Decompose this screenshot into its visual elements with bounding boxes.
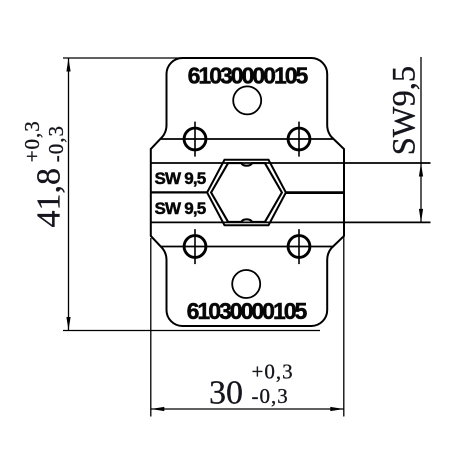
dim 41,8 arrow up xyxy=(66,58,70,72)
svg-text:SW 9,5: SW 9,5 xyxy=(155,199,206,218)
die split line top (inner hex top flat extended) xyxy=(151,162,431,164)
hexagon cavity outer xyxy=(207,160,286,225)
dim 41,8 arrow down xyxy=(66,317,70,331)
dim SW9,5 arrow down xyxy=(419,209,423,223)
lower holes center line xyxy=(161,246,334,248)
svg-text:SW 9,5: SW 9,5 xyxy=(155,169,206,188)
bottom tab hole xyxy=(232,270,260,298)
dim 30 extension line left xyxy=(150,238,152,417)
dim 30 extension line right xyxy=(343,237,345,417)
svg-text:-0,3: -0,3 xyxy=(252,384,289,408)
svg-text:SW9,5: SW9,5 xyxy=(386,66,422,155)
top tab hole xyxy=(233,86,261,114)
svg-text:41,8: 41,8 xyxy=(31,168,68,228)
dim 30 arrow right xyxy=(330,407,344,411)
screw hole bottom-left xyxy=(184,236,206,258)
svg-text:-0,3: -0,3 xyxy=(44,125,68,162)
screw hole bottom-right xyxy=(288,236,310,258)
dim 41,8 extension line top xyxy=(63,57,183,59)
dim 30 dimension line xyxy=(151,408,344,410)
dim SW9,5 arrow up xyxy=(419,163,423,177)
upper holes center line xyxy=(161,138,335,140)
screw hole top-right xyxy=(288,128,310,150)
mid parting line right xyxy=(285,191,344,194)
svg-text:+0,3: +0,3 xyxy=(252,360,294,384)
dim 41,8 dimension line xyxy=(68,58,70,331)
svg-text:61030000105: 61030000105 xyxy=(187,298,308,324)
dim 30 arrow left xyxy=(151,407,165,411)
hexagon cavity inner with notches xyxy=(211,163,282,222)
screw hole top-left xyxy=(184,128,206,150)
die split line bottom (inner hex bottom flat extended) xyxy=(151,221,431,223)
svg-text:30: 30 xyxy=(209,375,243,412)
plate outline xyxy=(151,58,344,326)
mid parting line left xyxy=(151,191,208,193)
dim SW9,5 dimension line xyxy=(420,57,422,222)
dim 41,8 extension line bottom xyxy=(63,330,320,332)
svg-text:+0,3: +0,3 xyxy=(20,120,44,162)
svg-text:61030000105: 61030000105 xyxy=(188,63,309,89)
